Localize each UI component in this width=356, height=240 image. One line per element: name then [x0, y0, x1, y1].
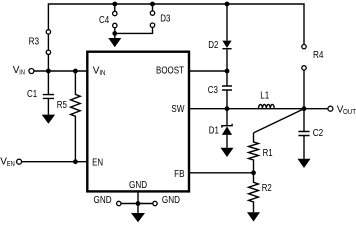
ground under R2 [247, 212, 260, 221]
node rail-D3 [150, 2, 155, 7]
svg-text:R2: R2 [262, 183, 272, 194]
terminal VIN [29, 69, 34, 74]
svg-text:D1: D1 [209, 126, 220, 137]
capacitor C1 [43, 71, 54, 115]
resistor R1 [249, 133, 259, 173]
terminal C4 top [113, 11, 117, 15]
terminal D3 bottom [150, 23, 154, 27]
node SW-D1 [225, 106, 230, 111]
svg-text:BOOST: BOOST [156, 65, 184, 76]
terminal C4 bottom [113, 23, 117, 27]
open terminal circles [17, 11, 333, 206]
node VIN-R3 [46, 69, 51, 74]
svg-text:IN: IN [99, 70, 105, 77]
svg-text:C1: C1 [27, 89, 38, 100]
ground under C1 [42, 115, 55, 124]
node VOUT-C2 [302, 106, 307, 111]
svg-text:D2: D2 [208, 40, 219, 51]
svg-text:GND: GND [162, 195, 180, 206]
svg-text:FB: FB [174, 169, 185, 180]
node rail-D2 [225, 2, 230, 7]
node FB divider [251, 170, 256, 175]
terminal R4 top [302, 44, 306, 48]
node VIN-R5 [73, 69, 78, 74]
wire C4/D3 ground link [115, 27, 153, 33]
svg-text:EN: EN [92, 157, 103, 168]
svg-text:SW: SW [171, 104, 185, 115]
resistor R2 [249, 173, 259, 213]
terminal VOUT [328, 106, 333, 111]
diode D2 [222, 41, 231, 48]
node BOOST-C3 [225, 69, 230, 74]
svg-text:GND: GND [129, 180, 147, 191]
capacitor C2 [298, 109, 309, 159]
terminal D3 top [150, 11, 154, 15]
wire VIN input [34, 70, 87, 72]
wire R3 bottom to VIN net [47, 55, 49, 72]
ground under GND pin [137, 204, 139, 214]
svg-text:L1: L1 [260, 91, 269, 102]
svg-text:C4: C4 [99, 15, 110, 26]
op-amp U1 (regulator IC body) [87, 52, 189, 192]
wire SW to VOUT [189, 108, 328, 110]
node rail-C4 [112, 2, 117, 7]
node GND [136, 201, 141, 206]
node EN-R5 [73, 159, 78, 164]
wire feedback diagonal from VOUT node [254, 109, 305, 133]
wire VEN input [22, 161, 88, 163]
terminal VEN [17, 159, 22, 164]
wire BOOST [189, 70, 227, 72]
svg-text:R1: R1 [263, 148, 273, 159]
ground under C2 [298, 159, 311, 168]
ground under D1 [221, 148, 234, 157]
diode D1 (schottky) [222, 109, 232, 128]
resistor R5 [71, 71, 81, 162]
resistor R4 branch (terminals) [303, 70, 305, 109]
wire GND pin [121, 191, 153, 203]
inductor L1 [259, 104, 275, 108]
capacitor C4 branch from rail [114, 4, 116, 33]
node C4 ground [112, 31, 117, 36]
node junction dots [46, 2, 306, 206]
diode D3 branch from rail [152, 4, 154, 11]
svg-text:D3: D3 [160, 13, 171, 24]
svg-text:GND: GND [94, 195, 112, 206]
wire FB [189, 172, 254, 174]
svg-text:C3: C3 [208, 85, 219, 96]
diode D2 branch [226, 4, 228, 71]
svg-text:EN: EN [7, 161, 15, 168]
terminal R3 bottom [46, 50, 50, 54]
resistor R3 (jumper with terminals) [47, 34, 49, 50]
wire top rail [48, 4, 304, 44]
terminal R3 top [46, 30, 50, 34]
svg-text:R3: R3 [29, 37, 40, 48]
terminal R4 bottom [302, 66, 306, 70]
svg-text:IN: IN [19, 70, 25, 77]
svg-text:OUT: OUT [343, 109, 356, 116]
svg-text:R4: R4 [313, 50, 324, 61]
terminal GND left [117, 201, 121, 205]
svg-text:C2: C2 [313, 128, 324, 139]
capacitor C3 [222, 71, 232, 109]
svg-text:R5: R5 [57, 100, 68, 111]
ground under C4/D3 [114, 33, 116, 38]
terminal GND right [153, 201, 157, 205]
